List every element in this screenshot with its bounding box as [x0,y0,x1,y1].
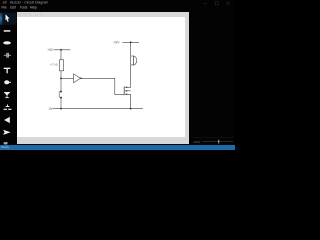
svg-text:4.7 kΩ: 4.7 kΩ [50,63,58,67]
wire resistor to node A [60,71,62,79]
switch contact bottom [60,97,62,99]
tool: ground glass [4,92,10,98]
node +9V left rail [54,49,71,51]
svg-text:Help: Help [30,6,37,10]
label 0V [49,107,54,111]
white drawing page [17,17,185,137]
switch contact top [60,91,62,93]
tool: capacitor [4,53,11,58]
node 0V rail [53,108,143,110]
tool: diode blob [4,80,11,84]
junction source to 0V [130,108,132,110]
tool: rotate left arrow [4,117,10,123]
svg-text:Edit: Edit [10,6,16,10]
junction switch to 0V [60,108,62,110]
wire buffer output to gate [82,78,124,94]
svg-text:+9V: +9V [113,40,120,44]
op-amp buffer U1 [74,74,81,83]
transistor Q1 drain lead [127,86,130,88]
blue status bar [0,145,235,150]
svg-text:Ready: Ready [1,145,9,149]
tool: text T [4,68,11,74]
svg-text:cd: cd [3,1,7,5]
label +9V left [47,48,54,52]
wire switch to 0V rail [60,98,62,109]
faint toolbar hints [19,13,44,16]
node +9V right rail [122,41,138,43]
wire node A to switch [60,78,62,91]
svg-text:100%: 100% [193,140,200,144]
menu bar [1,6,36,10]
wire node A to buffer input [61,77,74,79]
label 4.7k resistor value [50,63,58,67]
wire right rail through buzzer to drain [130,42,132,87]
buffer output bubble [80,77,82,79]
svg-text:File: File [1,6,6,10]
zoom slider thumb [218,140,219,144]
app icon [3,1,7,5]
svg-text:Tools: Tools [20,6,28,10]
tool: wire [4,30,11,32]
zoom slider track [202,141,233,143]
status bar text [1,145,9,149]
svg-text:Buzzer - Circuit Diagram: Buzzer - Circuit Diagram [10,1,48,5]
canvas scroll area (gray) [17,12,189,145]
zoom value text [193,140,200,144]
panel separator [194,136,234,138]
tool: select cursor [6,14,10,22]
transistor Q1 source lead [127,94,130,108]
wire rail to resistor [60,50,62,60]
transistor Q1 gate bar [123,86,125,95]
junction left rail [60,49,62,51]
tool: run arrow [3,130,11,135]
transistor Q1 bulk lead [127,90,130,92]
junction right rail [130,41,132,43]
tool: ellipse [3,41,11,44]
transistor Q1 channel segments [126,87,128,94]
switch SW1 actuator [58,91,60,98]
resistor R1 body [59,60,63,71]
svg-text:0V: 0V [49,107,54,111]
svg-text:+9V: +9V [47,48,54,52]
status mark above blue bar [4,142,8,144]
junction node A [60,78,62,80]
window buttons [204,2,230,5]
label +9V right [113,40,120,44]
title text [10,1,48,5]
tool: ic [4,104,12,109]
buzzer BZ1 [131,56,134,65]
